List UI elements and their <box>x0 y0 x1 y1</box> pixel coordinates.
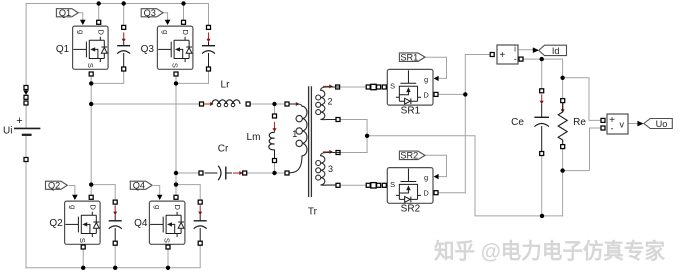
transformer secondary winding 2 <box>316 84 340 121</box>
wire Q4 gate tag <box>154 186 160 196</box>
wire Re bottom <box>562 149 564 216</box>
svg-text:g: g <box>68 205 77 209</box>
wire center tap to output return <box>367 136 562 216</box>
wire C3 return <box>176 71 209 83</box>
svg-text:g: g <box>76 30 85 34</box>
mosfet block Q4 <box>134 195 185 249</box>
wire ammeter minus <box>523 59 563 78</box>
svg-text:i: i <box>514 45 516 54</box>
svg-text:D: D <box>423 90 429 99</box>
mosfet block Q2 <box>49 195 100 249</box>
wire Q1 drain drop <box>98 4 100 21</box>
wire winding3 bottom to SR2.S <box>340 184 384 186</box>
svg-text:SR2: SR2 <box>401 204 421 215</box>
goto tag Q1 <box>56 8 78 18</box>
wire drain rail <box>465 55 490 193</box>
dc source Ui <box>3 86 40 162</box>
svg-text:Q4: Q4 <box>134 218 148 229</box>
svg-text:Re: Re <box>573 117 586 128</box>
signal arrowhead to Uo <box>637 121 643 127</box>
svg-text:Q1: Q1 <box>56 44 70 55</box>
capacitor Cr <box>199 166 247 180</box>
svg-text:1: 1 <box>292 129 297 139</box>
from tag Uo <box>644 119 672 130</box>
svg-text:SR1: SR1 <box>401 105 421 116</box>
wire Q4 source drop <box>167 249 169 267</box>
svg-text:Q2: Q2 <box>49 218 63 229</box>
wire battery positive drop <box>25 4 27 129</box>
svg-text:S: S <box>390 180 395 189</box>
wire Q3 drain drop <box>183 4 185 21</box>
wire Ce top <box>541 59 543 88</box>
transformer primary winding <box>285 102 307 175</box>
from tag Id <box>539 45 567 56</box>
svg-text:Cr: Cr <box>218 143 229 154</box>
svg-text:Q1: Q1 <box>59 8 71 18</box>
capacitor C2 <box>109 200 122 245</box>
wire C2 bottom drop <box>114 245 116 267</box>
svg-text:-: - <box>514 54 517 64</box>
svg-text:v: v <box>620 120 625 130</box>
svg-text:S: S <box>163 238 172 243</box>
svg-text:2: 2 <box>327 97 332 107</box>
wire node A to Lr <box>91 103 199 105</box>
svg-text:Id: Id <box>552 46 560 56</box>
svg-text:-: - <box>611 123 614 133</box>
svg-text:+: + <box>16 115 22 127</box>
capacitor C1 <box>117 25 130 71</box>
inductor Lm <box>269 114 277 163</box>
svg-text:D: D <box>173 204 182 210</box>
svg-text:Q3: Q3 <box>144 8 156 18</box>
svg-text:g: g <box>161 30 170 34</box>
svg-text:g: g <box>424 75 428 84</box>
svg-text:Q4: Q4 <box>133 181 145 191</box>
wire leg B Q3.S to Q4.D <box>175 76 177 196</box>
wire battery negative to bottom bus <box>25 135 27 268</box>
wire leg A Q1.S to Q2.D <box>90 76 92 196</box>
svg-text:S: S <box>86 63 95 68</box>
wire node B to Cr <box>176 172 199 174</box>
mosfet block Q3 <box>141 20 193 76</box>
wire Lm top stub <box>274 104 276 114</box>
svg-text:g: g <box>424 173 428 182</box>
wire C1 top drop <box>123 4 125 26</box>
wire SR1 gate tag <box>425 57 447 78</box>
wire plus sense <box>563 78 601 121</box>
wire Q2 source drop <box>82 249 84 267</box>
wire winding3 top to center tap <box>340 152 367 154</box>
svg-text:D: D <box>88 204 97 210</box>
svg-text:Tr: Tr <box>308 206 318 217</box>
wire bottom bus <box>26 245 200 267</box>
capacitor C3 <box>202 25 215 71</box>
wire winding2 top to SR1.S <box>340 86 384 88</box>
svg-text:Uo: Uo <box>656 119 668 129</box>
wire Q3 gate tag <box>163 13 168 20</box>
goto tag Q4 <box>130 181 152 191</box>
svg-text:S: S <box>171 63 180 68</box>
svg-text:S: S <box>390 82 395 91</box>
mosfet block SR1 <box>366 69 438 116</box>
wire Cr to primary bottom <box>247 172 285 174</box>
wire C4 feed <box>176 185 200 200</box>
wire C1 return <box>91 71 124 83</box>
goto tag Q3 <box>141 8 163 18</box>
current measurement block Id <box>490 45 523 64</box>
svg-text:Lr: Lr <box>221 80 231 91</box>
goto tag Q2 <box>46 181 68 191</box>
svg-text:Q2: Q2 <box>48 181 60 191</box>
transformer Tr <box>285 84 340 197</box>
mosfet block SR2 <box>366 168 438 215</box>
svg-text:D: D <box>96 29 105 35</box>
mosfet block Q1 <box>56 20 108 76</box>
wire Lr to primary top <box>250 103 284 105</box>
capacitor C4 <box>194 200 207 245</box>
wire ammeter output <box>518 49 533 51</box>
wire top DC bus <box>26 3 208 5</box>
wire minus sense <box>563 128 601 171</box>
signal arrowhead to Id <box>533 47 539 53</box>
svg-text:Lm: Lm <box>247 132 261 143</box>
wire winding2 bottom to center tap <box>340 120 367 136</box>
wire Lm bottom stub <box>274 163 276 173</box>
svg-text:Q3: Q3 <box>141 44 155 55</box>
wire Q1 gate tag <box>78 13 83 20</box>
resistor Re <box>558 99 586 149</box>
svg-text:S: S <box>78 238 87 243</box>
wire C3 top drop <box>208 4 210 26</box>
wire center tap vertical <box>366 136 368 153</box>
svg-text:D: D <box>181 29 190 35</box>
svg-text:SR1: SR1 <box>400 52 418 62</box>
goto tag SR2 <box>399 151 425 161</box>
wire Re top <box>562 78 564 99</box>
transformer core <box>309 86 312 197</box>
wire C2 feed <box>91 185 115 200</box>
inductor Lr <box>200 100 251 107</box>
voltage measurement block Uo <box>601 114 628 134</box>
wire SR2 gate tag <box>424 155 447 176</box>
svg-text:SR2: SR2 <box>400 151 418 161</box>
svg-text:Ce: Ce <box>511 117 524 128</box>
wire SR1 drain out <box>438 93 465 95</box>
svg-text:3: 3 <box>328 164 333 174</box>
transformer secondary winding 3 <box>316 150 340 187</box>
svg-text:g: g <box>153 205 162 209</box>
wire SR2 drain out <box>438 192 465 194</box>
svg-text:D: D <box>423 189 429 198</box>
svg-text:+: + <box>499 50 505 61</box>
goto tag SR1 <box>399 52 425 62</box>
wire Q2 gate tag <box>69 186 75 196</box>
svg-text:Ui: Ui <box>3 126 12 137</box>
svg-text:知乎 @电力电子仿真专家: 知乎 @电力电子仿真专家 <box>434 239 665 264</box>
wire Ce bottom <box>541 156 543 216</box>
wire voltmeter output <box>629 123 638 125</box>
capacitor Ce <box>511 89 549 156</box>
